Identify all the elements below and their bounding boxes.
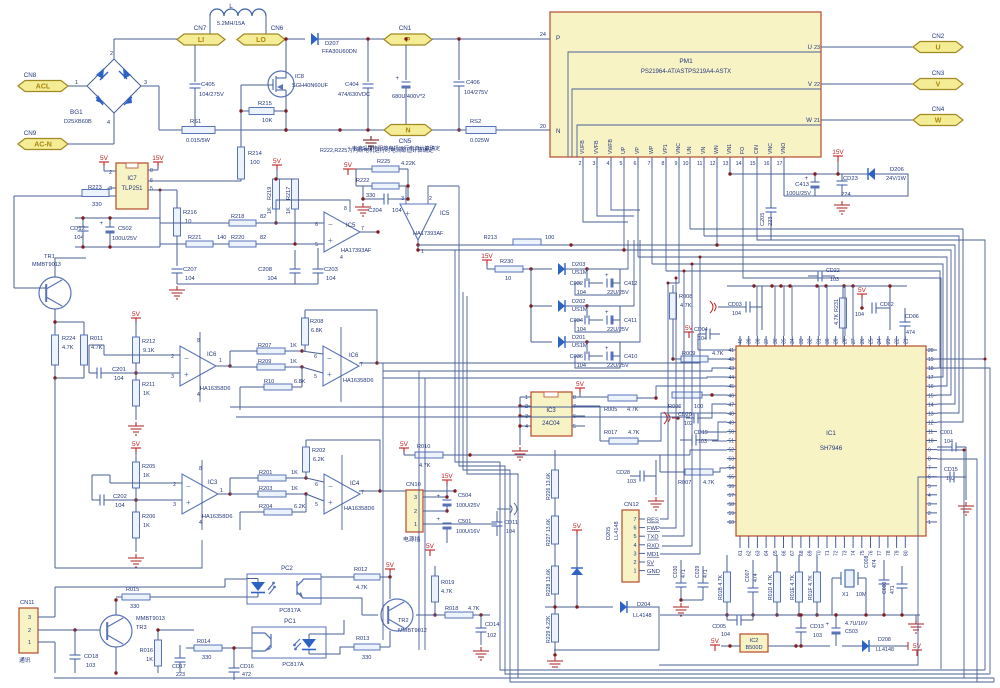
svg-text:R10: R10 (264, 379, 274, 385)
svg-text:15: 15 (928, 393, 934, 399)
wire vcc through (340, 327, 342, 402)
svg-text:CD28: CD28 (616, 470, 630, 476)
wire bottom bus long (54, 677, 994, 679)
wire D203 out (565, 268, 587, 270)
ground C207 (169, 286, 185, 299)
svg-text:48: 48 (728, 411, 734, 417)
svg-text:30: 30 (825, 338, 831, 344)
svg-text:+: + (437, 494, 441, 500)
wire IC6a out (216, 365, 230, 367)
wire R222 right (399, 185, 408, 187)
resistor R005 (608, 395, 637, 401)
svg-text:+: + (396, 76, 400, 82)
wire R214 bottom (240, 179, 242, 181)
svg-text:C208: C208 (258, 267, 272, 273)
wire (619, 269, 621, 283)
svg-text:C412: C412 (624, 281, 637, 287)
wire C208 (294, 250, 296, 269)
svg-text:R207: R207 (258, 343, 271, 349)
svg-text:C007: C007 (745, 569, 751, 582)
wire R007 to pin54 (713, 468, 727, 472)
svg-text:C504: C504 (458, 493, 471, 499)
svg-text:4: 4 (340, 255, 343, 261)
power tick R225 (348, 168, 356, 170)
svg-text:D206: D206 (890, 167, 904, 173)
wire PC2 anode (225, 579, 247, 587)
wire top pin drop (844, 286, 846, 336)
diode D204 (620, 601, 627, 613)
wire FO loop (743, 168, 941, 669)
power 15V CN10 (441, 473, 453, 486)
svg-text:1: 1 (75, 80, 78, 86)
svg-text:72: 72 (834, 550, 840, 556)
svg-text:330: 330 (366, 193, 375, 199)
svg-text:C201: C201 (112, 367, 126, 373)
svg-text:69: 69 (808, 550, 814, 556)
wire CN11 pin1 (54, 642, 56, 673)
svg-text:+: + (605, 346, 609, 352)
capacitor C504 (437, 494, 452, 507)
wire D207-P (318, 38, 384, 40)
svg-text:33: 33 (799, 338, 805, 344)
svg-text:C411: C411 (624, 318, 637, 324)
svg-text:10: 10 (928, 439, 934, 445)
svg-text:3: 3 (401, 196, 404, 202)
svg-text:2: 2 (928, 511, 931, 517)
svg-text:R005: R005 (604, 407, 617, 413)
svg-text:5: 5 (634, 534, 637, 540)
svg-text:103: 103 (627, 479, 636, 485)
svg-text:C405: C405 (201, 82, 215, 88)
resistor R230 (495, 266, 523, 272)
svg-text:49: 49 (728, 420, 734, 426)
wire C204 left (363, 198, 384, 200)
wire R10 left (240, 386, 264, 388)
wire VVFB stair (597, 168, 634, 216)
svg-text:62: 62 (747, 550, 753, 556)
svg-text:24C04: 24C04 (542, 421, 560, 427)
svg-text:WN: WN (714, 145, 720, 154)
svg-text:330: 330 (202, 655, 211, 661)
wire R008 bot (672, 319, 674, 359)
wire top pin drop (756, 286, 758, 336)
wire VWFB inner (577, 125, 821, 157)
svg-text:D205: D205 (606, 527, 612, 540)
bridge BG1 outline (87, 59, 141, 113)
svg-text:3: 3 (171, 374, 174, 380)
wire bus VP (638, 257, 947, 386)
svg-text:73: 73 (842, 550, 848, 556)
resistor R007 (685, 469, 713, 475)
svg-text:R213: R213 (484, 235, 497, 241)
svg-text:5V: 5V (400, 441, 409, 448)
wire VWFB stair (611, 168, 640, 210)
svg-text:5: 5 (150, 186, 153, 192)
svg-text:CD17: CD17 (172, 664, 186, 670)
wire R019 top (434, 566, 436, 576)
svg-text:TR1: TR1 (44, 254, 55, 260)
resistor R01F (814, 572, 821, 602)
svg-text:−: − (186, 482, 191, 491)
wire IGBT source (285, 97, 287, 130)
svg-text:10: 10 (683, 161, 689, 167)
svg-text:R202: R202 (312, 448, 325, 454)
op-amp IC3op (182, 474, 218, 514)
svg-text:15: 15 (750, 161, 756, 167)
svg-text:9: 9 (928, 448, 931, 454)
wire cap top rail (75, 217, 160, 219)
capacitor CD19 (692, 435, 696, 446)
resistor R213 (513, 239, 541, 245)
wire IGBT drain (285, 39, 287, 71)
wire VVFB inner (572, 89, 821, 157)
wire VUFB stair (583, 168, 628, 222)
wire CN10 pin1 (440, 523, 497, 525)
capacitor C001 (952, 443, 956, 452)
power 5V TR2 (385, 562, 395, 575)
wire CD04 left (697, 334, 699, 350)
wire R201 right (286, 477, 306, 479)
wire center bus 3 (467, 296, 518, 678)
wire loop pin6 (659, 477, 937, 665)
svg-text:4.7K: 4.7K (712, 351, 724, 357)
svg-text:4.22K: 4.22K (401, 161, 416, 167)
connector CN5 N (384, 125, 432, 136)
svg-text:R222: R222 (356, 178, 369, 184)
testpoint red (664, 412, 676, 424)
wire P rail (432, 38, 550, 40)
resistor R201 (258, 475, 286, 481)
diode D207 (311, 33, 318, 45)
wire 15V rail (784, 173, 908, 175)
svg-text:1: 1 (219, 358, 222, 364)
connector CN12 (622, 510, 639, 582)
svg-text:8: 8 (662, 161, 665, 167)
resistor R202 (303, 447, 310, 472)
wire IC6a vcc (199, 332, 201, 402)
resistor R205 (133, 462, 140, 488)
svg-text:+: + (327, 370, 332, 379)
svg-text:100U/25V: 100U/25V (112, 236, 137, 242)
capacitor C501 (437, 517, 452, 530)
svg-text:104: 104 (267, 276, 277, 282)
wire to IC4 + (306, 494, 324, 501)
wire coil left (209, 16, 211, 35)
svg-text:4: 4 (525, 424, 528, 430)
svg-text:23: 23 (886, 338, 892, 344)
svg-text:N: N (405, 128, 410, 135)
svg-text:VVFB: VVFB (594, 140, 600, 154)
wire R218 left (160, 222, 229, 224)
resistor RS1 (182, 127, 215, 134)
wire sig 4 (236, 416, 690, 418)
svg-text:5V: 5V (711, 638, 720, 645)
capacitor C503 (826, 622, 841, 635)
capacitor C029 (698, 583, 709, 587)
wire pin13 stub (729, 157, 731, 168)
svg-text:R01B 4.7K: R01B 4.7K (718, 574, 724, 600)
svg-text:R013: R013 (356, 636, 369, 642)
svg-text:4.7K: 4.7K (91, 345, 103, 351)
svg-text:1K: 1K (291, 486, 298, 492)
svg-text:100U/25V: 100U/25V (456, 503, 480, 509)
PC1 LED (293, 634, 326, 654)
wire R208 top (304, 310, 306, 318)
resistor R01D (774, 572, 781, 602)
svg-text:C203: C203 (324, 267, 338, 273)
PC1 emitter arrow (265, 647, 271, 651)
svg-text:R203: R203 (259, 486, 272, 492)
svg-text:TR2: TR2 (398, 618, 409, 624)
wire D206 loop (865, 174, 908, 196)
wire pin3 stub (596, 157, 598, 168)
svg-text:+: + (826, 622, 830, 628)
svg-text:PC2: PC2 (281, 566, 293, 572)
resistor R228 (552, 566, 559, 594)
svg-text:1: 1 (525, 395, 528, 401)
svg-text:60: 60 (728, 520, 734, 526)
svg-text:B500D: B500D (745, 645, 762, 651)
wire W out (821, 119, 913, 121)
svg-text:471: 471 (681, 569, 687, 578)
svg-text:RES: RES (647, 518, 659, 524)
svg-text:5: 5 (620, 161, 623, 167)
svg-text:IC6: IC6 (349, 353, 359, 359)
svg-text:R223: R223 (88, 185, 102, 191)
svg-text:52: 52 (728, 448, 734, 454)
svg-text:CN12: CN12 (624, 502, 639, 508)
svg-text:3: 3 (634, 551, 637, 557)
svg-text:W: W (806, 117, 812, 124)
ground CN5 (363, 136, 379, 149)
svg-text:CN9: CN9 (24, 130, 37, 137)
svg-text:5V: 5V (576, 381, 585, 388)
wire pin10 stub (689, 157, 691, 168)
svg-text:LL4148: LL4148 (633, 613, 652, 619)
svg-text:R017: R017 (604, 430, 617, 436)
wire D202 out (565, 305, 587, 307)
svg-text:1K: 1K (143, 523, 150, 529)
svg-text:1K: 1K (290, 359, 297, 365)
svg-text:D201: D201 (572, 335, 585, 341)
svg-text:4.7K: 4.7K (356, 585, 368, 591)
svg-text:6: 6 (314, 354, 317, 360)
svg-text:PC817A: PC817A (279, 608, 301, 614)
svg-text:8: 8 (573, 395, 576, 401)
svg-text:7: 7 (361, 226, 364, 232)
optocoupler PC2 (247, 574, 321, 604)
svg-text:3: 3 (414, 495, 417, 501)
svg-text:25: 25 (869, 338, 875, 344)
svg-text:1K: 1K (267, 207, 273, 214)
capacitor CD11 (492, 522, 503, 526)
svg-text:VP: VP (635, 147, 641, 154)
svg-text:R206: R206 (142, 514, 155, 520)
capacitor CD02 (872, 303, 876, 314)
capacitor C030 (676, 583, 687, 587)
wire pin4 stub (610, 157, 612, 168)
svg-text:6: 6 (315, 222, 318, 228)
svg-text:C503: C503 (845, 629, 858, 635)
wire pin16 stub (770, 157, 772, 168)
wire cap col (159, 190, 161, 218)
svg-text:IC5: IC5 (440, 211, 450, 217)
wire R202 top (305, 440, 307, 447)
transistor TR2 (381, 599, 413, 631)
svg-text:44: 44 (728, 375, 734, 381)
svg-text:VNC: VNC (768, 143, 774, 154)
resistor R214 (238, 147, 245, 179)
svg-text:45: 45 (728, 384, 734, 390)
PC1 transistor (252, 633, 271, 651)
resistor R018 (445, 612, 473, 618)
svg-text:LL4148: LL4148 (876, 647, 894, 653)
wire D204 row (545, 606, 613, 608)
svg-text:23: 23 (814, 45, 820, 51)
svg-text:1K: 1K (291, 470, 298, 476)
resistor R224 (52, 335, 59, 365)
wire 24C04 pin3 (520, 415, 531, 417)
wire pin5 stub (623, 157, 625, 168)
wire pin2 stub (582, 157, 584, 168)
svg-text:17: 17 (928, 375, 934, 381)
capacitor C413 (805, 176, 820, 189)
svg-text:通讯: 通讯 (19, 656, 31, 664)
connector CN9 AC-N (18, 139, 68, 150)
wire C204 right (388, 198, 408, 200)
wire corner join (993, 678, 995, 682)
wire TR1 base (14, 287, 46, 289)
svg-text:R007: R007 (678, 480, 691, 486)
wire top pin drop (774, 286, 776, 336)
IC IC7 TLP251 (116, 163, 148, 209)
capacitor C036 (585, 352, 589, 361)
svg-text:UN: UN (687, 146, 693, 154)
svg-text:CN11: CN11 (20, 600, 34, 606)
svg-text:C406: C406 (466, 80, 480, 86)
connector CN2 U (913, 42, 963, 53)
wire IC7 pin8 (148, 169, 158, 171)
svg-text:20: 20 (928, 348, 934, 354)
power 5V IC7 (99, 155, 109, 168)
resistor R212 (133, 337, 140, 363)
wire C403 top (405, 45, 407, 80)
capacitor CD05 (737, 615, 741, 626)
svg-text:5: 5 (573, 424, 576, 430)
svg-text:C207: C207 (183, 267, 197, 273)
wire R018 right (473, 614, 490, 616)
wire N-RS2 (432, 129, 466, 131)
resistor R206 (133, 512, 140, 538)
svg-text:11: 11 (928, 429, 933, 435)
ground C030 (673, 603, 689, 616)
svg-text:CD11: CD11 (504, 520, 518, 526)
svg-text:TLP251: TLP251 (121, 186, 143, 192)
wire fb loop (305, 310, 377, 363)
svg-text:VNC: VNC (676, 143, 682, 154)
wire bridge2 up (113, 39, 115, 59)
wire R229 bot (554, 642, 556, 655)
svg-text:电流采样电阻按电机运行电流计算确定: 电流采样电阻按电机运行电流计算确定 (352, 144, 440, 152)
svg-text:X1: X1 (842, 592, 849, 598)
svg-text:104: 104 (185, 276, 195, 282)
svg-text:0.025W: 0.025W (470, 138, 490, 144)
svg-text:474: 474 (906, 330, 915, 336)
svg-text:104: 104 (392, 208, 402, 214)
wire pin50 stub (700, 431, 727, 433)
svg-text:N: N (556, 128, 560, 135)
wire CD03 right (761, 286, 763, 330)
svg-text:US1M: US1M (572, 307, 588, 313)
svg-text:R216: R216 (183, 210, 197, 216)
svg-text:VN1: VN1 (727, 144, 733, 154)
svg-text:VUFB: VUFB (580, 140, 586, 154)
svg-text:12: 12 (710, 161, 716, 167)
svg-text:5: 5 (315, 242, 318, 248)
wire RS2-PM1 (496, 129, 550, 131)
IC7 notch (126, 163, 138, 168)
svg-text:−: − (328, 482, 333, 491)
svg-text:10K: 10K (262, 118, 272, 124)
svg-text:37: 37 (764, 338, 770, 344)
wire R225 left (356, 168, 372, 170)
svg-text:224: 224 (841, 192, 851, 198)
capacitor C208 (290, 269, 301, 273)
svg-text:12: 12 (928, 420, 934, 426)
svg-text:24V/1W: 24V/1W (886, 176, 907, 182)
svg-text:HA17393AF: HA17393AF (341, 248, 372, 254)
wire R231 top (842, 286, 844, 298)
svg-text:C029: C029 (695, 565, 701, 578)
resistor R011 (81, 335, 88, 365)
svg-text:54: 54 (728, 466, 734, 472)
svg-text:R016: R016 (140, 648, 153, 654)
svg-text:56: 56 (728, 484, 734, 490)
svg-text:6: 6 (634, 526, 637, 532)
diode D202 (558, 300, 565, 312)
wire bridge3 (141, 85, 159, 87)
svg-text:D203: D203 (572, 262, 585, 268)
svg-text:4.7K: 4.7K (703, 480, 715, 486)
svg-text:471: 471 (890, 585, 896, 594)
wire D205 top (576, 534, 578, 568)
wire R222 left jog (363, 185, 372, 187)
svg-text:3: 3 (109, 186, 112, 192)
svg-text:100: 100 (545, 235, 554, 241)
svg-text:24: 24 (877, 338, 883, 344)
wire CIN route (757, 168, 985, 670)
svg-text:1: 1 (28, 640, 31, 646)
svg-text:330: 330 (362, 655, 371, 661)
svg-text:2: 2 (110, 51, 113, 57)
svg-text:C404: C404 (345, 82, 360, 88)
wire R205-R206 (135, 488, 137, 512)
resistor R203 (258, 491, 286, 497)
svg-text:103: 103 (813, 633, 822, 639)
wire X1 right (858, 577, 866, 579)
svg-text:4: 4 (928, 493, 931, 499)
capacitor CD03 (746, 302, 750, 313)
svg-text:21: 21 (903, 338, 909, 344)
capacitor C204 (384, 194, 388, 205)
wire R008 top (672, 285, 674, 293)
svg-text:MMBT9013: MMBT9013 (136, 616, 165, 622)
svg-text:10: 10 (505, 276, 511, 282)
svg-text:74: 74 (851, 550, 857, 556)
wire V out (821, 83, 913, 85)
svg-text:C008: C008 (864, 555, 870, 568)
svg-text:5V: 5V (426, 543, 435, 550)
